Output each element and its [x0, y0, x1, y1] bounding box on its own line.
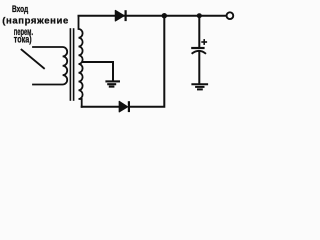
- svg-text:(напряжение: (напряжение: [2, 15, 69, 26]
- svg-text:Вход: Вход: [12, 4, 28, 14]
- svg-text:тока): тока): [14, 33, 32, 44]
